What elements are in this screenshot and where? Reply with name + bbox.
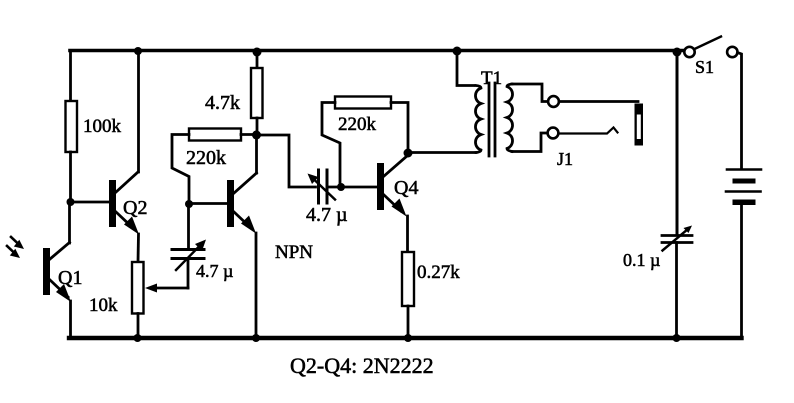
label J1 — [557, 149, 573, 169]
wire 220k second left lead — [322, 103, 340, 188]
wire NPN base — [189, 202, 227, 205]
svg-text:J1: J1 — [557, 149, 573, 169]
wire transformer primary top feed — [457, 51, 474, 86]
jack J1 lower terminal — [548, 128, 559, 139]
wire 220k second right lead — [391, 103, 408, 154]
node top rail at 4.7k — [253, 48, 262, 57]
resistor R 0.27k — [402, 252, 414, 306]
label S1 — [695, 57, 714, 77]
node top rail at transformer — [453, 47, 462, 56]
label 10k — [89, 295, 118, 316]
label Q1 — [58, 267, 82, 289]
node bottom rail at NPN emitter — [252, 334, 260, 342]
label 100k — [83, 116, 122, 137]
svg-text:220k: 220k — [186, 147, 226, 169]
wire 0.1u bottom lead — [675, 243, 678, 339]
label 0.1u — [623, 250, 660, 270]
label T1 — [481, 68, 502, 89]
transistor Q4 — [377, 156, 407, 217]
svg-text:T1: T1 — [481, 68, 502, 89]
wire Q4 collector to transformer primary — [408, 151, 476, 154]
label 4.7u near 10k — [196, 261, 233, 281]
wire S1 to battery — [738, 53, 742, 170]
wire cap to NPN base node — [187, 204, 190, 250]
svg-text:220k: 220k — [338, 114, 377, 135]
label 220k second — [338, 114, 377, 135]
wire top rail — [70, 49, 684, 53]
potentiometer R 10k — [132, 262, 144, 314]
wire Q4 base — [327, 186, 377, 189]
svg-text:NPN: NPN — [275, 242, 313, 263]
resistor R 100k — [66, 101, 78, 152]
svg-text:4.7 µ: 4.7 µ — [196, 261, 233, 281]
svg-text:Q2-Q4: 2N2222: Q2-Q4: 2N2222 — [290, 353, 434, 378]
node bottom rail at 10k — [134, 334, 142, 342]
wire 0.1u top branch — [676, 52, 679, 235]
wire Q2 base — [71, 201, 110, 204]
capacitor C 0.1u (variable) — [662, 226, 692, 251]
battery B1 — [726, 170, 761, 206]
node Q4 base junction — [337, 183, 345, 191]
transformer T1 primary winding — [475, 86, 481, 153]
node mid junction (4.7k / 220k / NPN collector) — [252, 131, 261, 140]
wire left rail lower — [69, 152, 72, 202]
wire secondary top to jack — [512, 84, 548, 102]
label 220k first — [186, 147, 226, 169]
caption Q2-Q4: 2N2222 — [290, 353, 434, 378]
resistor R 220k first — [189, 129, 241, 141]
wire coupling run (mid node to 4.7u cap) — [257, 135, 316, 187]
svg-text:0.1 µ: 0.1 µ — [623, 250, 660, 270]
wire 4.7k bottom lead — [256, 118, 259, 135]
label NPN — [275, 242, 313, 263]
node junction top rail at Q2 collector — [134, 47, 142, 55]
light arrow 1 — [11, 237, 24, 249]
resistor R 4.7k — [251, 68, 263, 118]
wire jack tip to earphone — [559, 100, 638, 103]
switch S1 — [684, 37, 737, 58]
label 0.27k — [417, 262, 460, 283]
resistor R 220k second — [335, 97, 391, 109]
wire bottom rail — [69, 336, 742, 340]
jack J1 upper terminal — [548, 96, 559, 107]
wire 0.27k bottom lead — [407, 306, 410, 338]
wire Q2 collector vertical — [137, 51, 140, 172]
node Q4 collector junction — [404, 149, 413, 158]
label 4.7u coupling — [306, 204, 348, 226]
transformer T1 core — [489, 83, 495, 156]
wire 220k right lead — [241, 133, 257, 136]
label Q2 — [123, 197, 147, 219]
svg-text:Q4: Q4 — [394, 177, 418, 199]
wire 10k bottom — [137, 314, 140, 339]
transistor NPN — [227, 173, 257, 234]
svg-text:Q2: Q2 — [123, 197, 147, 219]
label 4.7k — [205, 92, 240, 114]
capacitor C 4.7u (variable, near 10k) — [172, 240, 206, 271]
node NPN base junction — [185, 200, 193, 208]
earphone element — [635, 104, 644, 146]
wire NPN emitter to bottom rail — [255, 233, 258, 338]
transistor Q2 — [109, 172, 139, 235]
svg-text:4.7 µ: 4.7 µ — [306, 204, 348, 226]
capacitor C 4.7u (coupling, horizontal) — [308, 170, 336, 203]
wire 4.7k top lead — [256, 52, 259, 68]
transistor Q1 — [43, 243, 71, 303]
label Q4 — [394, 177, 418, 199]
wire left rail upper — [69, 51, 72, 101]
wire wiper riser — [187, 259, 190, 288]
wire Q2 emitter to 10k — [137, 234, 140, 262]
svg-text:Q1: Q1 — [58, 267, 82, 289]
wire NPN collector vertical — [255, 135, 258, 173]
light arrow 2 — [7, 246, 20, 258]
svg-text:0.27k: 0.27k — [417, 262, 460, 283]
node top rail at 0.1u branch — [673, 48, 682, 57]
transformer T1 secondary winding — [507, 84, 513, 152]
svg-text:10k: 10k — [89, 295, 118, 316]
svg-text:4.7k: 4.7k — [205, 92, 240, 114]
wire 220k left lead down to base node — [172, 135, 189, 205]
wire secondary bottom to jack — [512, 133, 548, 152]
wiper arrow of 10k — [145, 284, 188, 293]
wire Q1 collector vertical — [68, 202, 71, 243]
node bottom rail at 0.27k — [404, 334, 412, 342]
svg-text:S1: S1 — [695, 57, 714, 77]
wire battery to bottom rail — [740, 205, 743, 338]
wire Q4 emitter lead — [406, 216, 409, 252]
node bottom rail at 0.1u — [673, 334, 681, 342]
node junction left (Q2 base / Q1 collector) — [67, 198, 75, 206]
svg-text:100k: 100k — [83, 116, 122, 137]
wire jack switch contact — [559, 128, 618, 134]
wire Q1 emitter to bottom rail — [69, 301, 72, 338]
